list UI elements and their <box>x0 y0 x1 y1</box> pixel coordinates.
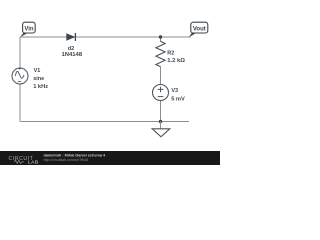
svg-text:V3: V3 <box>171 88 178 94</box>
junction node at ground net <box>159 120 162 123</box>
svg-text:1N4148: 1N4148 <box>61 52 82 58</box>
svg-text:V1: V1 <box>34 68 41 74</box>
watermark bar <box>0 151 220 165</box>
wire left vertical top <box>19 37 21 68</box>
voltage source V1 (sine) <box>12 68 48 91</box>
svg-text:1 kHz: 1 kHz <box>33 84 48 90</box>
node Vin (net flag) <box>20 22 35 37</box>
svg-text:http://circuitlab.com/c/e7fb48: http://circuitlab.com/c/e7fb48 <box>44 158 89 162</box>
svg-text:Vin: Vin <box>24 27 34 33</box>
svg-text:1.2 kΩ: 1.2 kΩ <box>167 58 185 64</box>
svg-text:sine: sine <box>33 76 44 82</box>
node Vout (net flag) <box>189 22 208 37</box>
wire bottom horizontal <box>20 121 189 123</box>
svg-text:R2: R2 <box>167 50 174 56</box>
svg-text:LAB: LAB <box>28 160 39 165</box>
wire top horizontal Vin to Vout <box>20 36 191 38</box>
resistor R2 <box>156 41 185 66</box>
svg-text:d2: d2 <box>68 46 74 52</box>
diode d2 <box>61 33 82 58</box>
voltage source V3 (dc) <box>153 85 186 103</box>
ground <box>152 122 170 137</box>
junction node at R2 top / Vout net <box>159 35 162 38</box>
wire R2 top lead <box>160 37 162 42</box>
svg-text:5 mV: 5 mV <box>171 96 185 102</box>
wire left vertical bottom <box>19 84 21 122</box>
wire V3 bottom lead <box>160 101 162 122</box>
svg-text:Vout: Vout <box>193 27 206 33</box>
wire R2 bottom to V3 top <box>160 67 162 85</box>
